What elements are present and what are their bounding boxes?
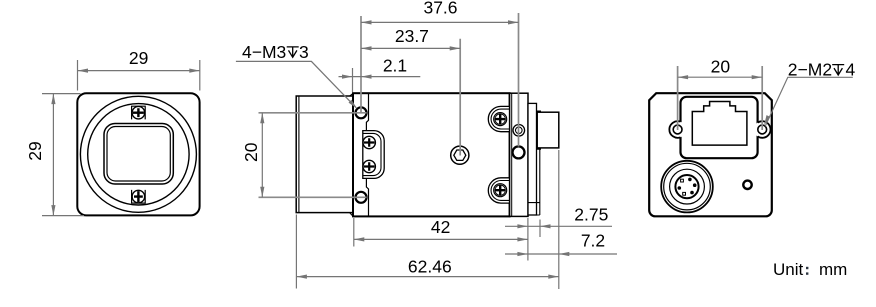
dimension 2.1 extension line [352,68,354,92]
dimension 2.75 line [505,225,612,227]
back view connector pins [688,178,692,182]
side view stadium boss [363,131,384,179]
svg-text:2−M2: 2−M2 [788,60,832,80]
dimension 42 extension lines [354,218,528,261]
side view front plate edge [366,93,368,216]
dimension 20 back line [678,76,763,78]
back view M2 boss right [754,121,771,138]
side view M3 hole bottom [356,192,367,203]
front bottom screw [132,190,145,203]
back view M2 hole right [758,125,767,134]
dimension 23.7 extension line [459,39,461,156]
svg-text:20: 20 [241,142,261,162]
dimension 7.2 line [505,253,617,255]
side view stadium screw top [363,136,375,148]
svg-text:20: 20 [711,57,731,77]
dimension 29 top line [78,70,200,72]
label 4-M3 leader [236,61,356,107]
svg-text:mm: mm [819,260,847,279]
svg-text:4: 4 [846,60,856,80]
side view right screw pad top [488,106,510,131]
svg-text:29: 29 [25,141,45,160]
back view power connector [661,161,713,213]
side view center tripod hole [451,146,469,164]
dimension 29 top extension lines [78,60,200,91]
back view RJ45 panel [681,97,758,158]
dimension 29 left extension lines [42,94,84,216]
side view back plate ring [513,125,525,137]
dimension 20 side extension lines [259,113,367,198]
side view right screw top [494,113,507,126]
svg-text:37.6: 37.6 [423,0,457,18]
svg-text:62.46: 62.46 [408,256,452,276]
front top screw [132,106,145,119]
side view right screw bottom [494,184,507,197]
svg-text:29: 29 [129,48,148,68]
side view rear connector block [537,111,541,149]
side view right screw pad bottom [488,178,510,203]
svg-text:2.75: 2.75 [574,205,608,225]
back view body [649,93,772,216]
svg-text:4−M3: 4−M3 [242,42,286,62]
svg-text:Unit: Unit [773,260,804,279]
dimension 20 side line [261,113,263,198]
side view M3 hole top [356,107,367,118]
dimension 7.2 extension line [558,150,560,289]
svg-text:3: 3 [299,42,309,62]
front view body [77,93,199,215]
front lens mount outer circle [80,96,196,212]
back view M2 hole left [673,125,682,134]
back view M2 boss left [669,121,686,138]
svg-text:42: 42 [431,217,450,237]
front sensor window [104,124,173,185]
side view back plate [510,93,528,216]
dimension 20 back extension lines [678,66,763,130]
side view back plate hole [513,146,525,158]
dimension 37.6 line [361,21,519,23]
front lens mount inner circle [88,104,189,205]
dimension 62.46 extension line [295,215,297,289]
svg-text:2.1: 2.1 [383,56,407,76]
dimension 62.46 line [296,276,558,278]
dimension 2.1 line [339,76,421,78]
label 2-M2 leader [765,77,853,126]
side view rear cover plate2 [528,103,537,215]
front top screw pad [132,106,146,119]
svg-text:23.7: 23.7 [395,26,429,46]
back view LED [743,181,751,189]
dimension 29 left line [52,94,54,216]
dimension 37.6 extension lines [361,13,519,147]
dimension 2.75 extension line [539,220,541,238]
side view main body [353,93,510,216]
back view RJ45 jack [692,102,747,146]
front bottom screw pad [132,190,146,203]
svg-text:7.2: 7.2 [581,230,605,250]
side view lens barrel [296,96,353,213]
dimension 42 line [354,238,528,240]
dimension 23.7 line [361,47,460,49]
side view stadium screw bottom [363,160,375,172]
